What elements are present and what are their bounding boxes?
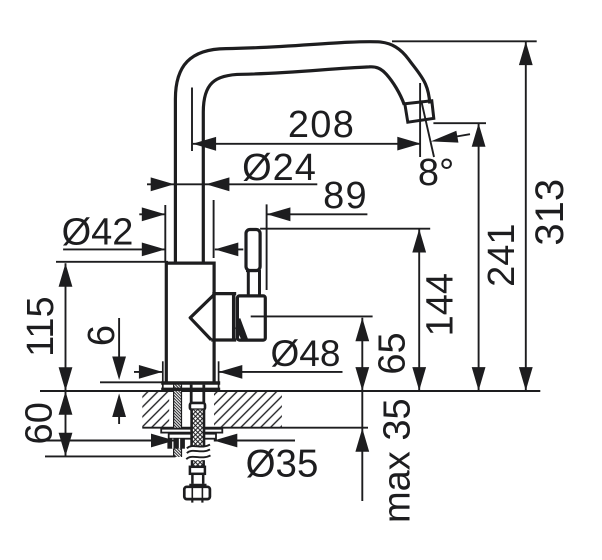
svg-text:313: 313 <box>528 179 572 246</box>
svg-text:241: 241 <box>481 223 523 286</box>
svg-text:Ø48: Ø48 <box>271 333 341 374</box>
svg-text:max 35: max 35 <box>377 398 419 523</box>
svg-text:89: 89 <box>323 175 368 217</box>
svg-text:8°: 8° <box>418 152 454 194</box>
svg-text:208: 208 <box>288 104 355 146</box>
svg-text:6: 6 <box>81 325 123 346</box>
svg-text:Ø42: Ø42 <box>62 212 134 254</box>
svg-text:Ø35: Ø35 <box>246 443 319 486</box>
svg-text:Ø24: Ø24 <box>242 147 317 189</box>
svg-text:115: 115 <box>20 296 62 357</box>
svg-text:65: 65 <box>371 332 413 374</box>
svg-text:144: 144 <box>420 273 462 336</box>
svg-text:60: 60 <box>18 402 60 444</box>
